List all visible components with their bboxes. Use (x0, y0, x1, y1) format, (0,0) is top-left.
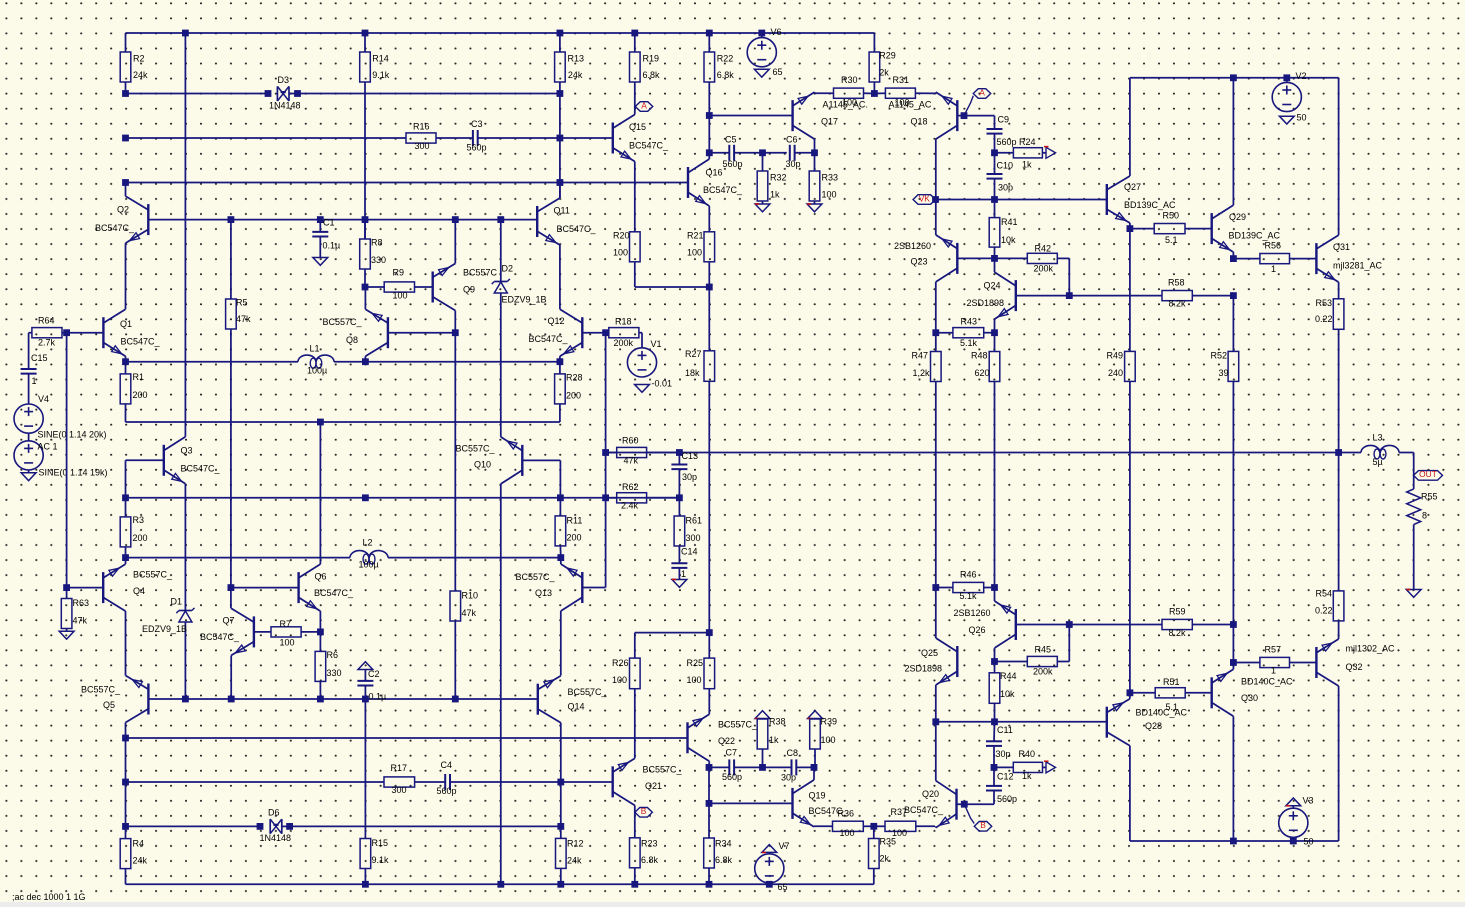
svg-text:BC557C_: BC557C_ (456, 443, 496, 453)
svg-text:C2: C2 (368, 669, 380, 679)
svg-text:R22: R22 (717, 53, 734, 63)
svg-text:R43: R43 (961, 316, 978, 326)
svg-text:24k: 24k (567, 855, 582, 865)
svg-text:R34: R34 (715, 838, 732, 848)
svg-text:R42: R42 (1035, 243, 1052, 253)
svg-text:BC557C_: BC557C_ (133, 569, 173, 579)
svg-text:V1: V1 (651, 339, 662, 349)
svg-text:24k: 24k (133, 855, 148, 865)
svg-text:Q22: Q22 (718, 736, 735, 746)
svg-text:0.22: 0.22 (1315, 314, 1333, 324)
svg-text:330: 330 (371, 255, 386, 265)
svg-text:mjl3281_AC: mjl3281_AC (1333, 260, 1383, 270)
svg-text:R59: R59 (1169, 606, 1186, 616)
svg-text:300: 300 (415, 141, 430, 151)
svg-text:R38: R38 (769, 716, 786, 726)
svg-text:47k: 47k (624, 455, 639, 465)
svg-text:R41: R41 (1001, 217, 1018, 227)
svg-text:D6: D6 (268, 807, 280, 817)
svg-text:Q2: Q2 (117, 204, 129, 214)
svg-text:Q29: Q29 (1229, 212, 1246, 222)
svg-text:R50: R50 (1163, 210, 1180, 220)
svg-text:5.1k: 5.1k (960, 591, 978, 601)
svg-text:C10: C10 (997, 160, 1014, 170)
svg-text:R44: R44 (1000, 671, 1017, 681)
svg-text:BD140C_AC: BD140C_AC (1136, 707, 1188, 717)
svg-text:240: 240 (1108, 368, 1123, 378)
svg-text:L1: L1 (310, 343, 320, 353)
svg-text:65: 65 (773, 67, 783, 77)
svg-text:620: 620 (975, 368, 990, 378)
svg-text:BC547C_: BC547C_ (121, 336, 161, 346)
svg-text:0.1µ: 0.1µ (369, 691, 387, 701)
svg-text:Q19: Q19 (809, 790, 826, 800)
svg-text:R52: R52 (1211, 350, 1228, 360)
svg-text:L3: L3 (1373, 432, 1383, 442)
svg-text:A1145_AC: A1145_AC (889, 99, 932, 109)
svg-text:C12: C12 (997, 771, 1014, 781)
svg-text:R46: R46 (960, 569, 977, 579)
svg-text:6.8k: 6.8k (715, 855, 733, 865)
svg-text:Q18: Q18 (911, 116, 928, 126)
svg-text:D2: D2 (502, 263, 514, 273)
svg-text:Q23: Q23 (911, 256, 928, 266)
svg-text:Q27: Q27 (1124, 182, 1141, 192)
svg-text:100: 100 (821, 735, 836, 745)
svg-text:Q25: Q25 (921, 648, 938, 658)
svg-text:560p: 560p (997, 137, 1017, 147)
svg-text:C6: C6 (786, 134, 798, 144)
svg-text:V3: V3 (1303, 795, 1314, 805)
svg-text:BC547C_: BC547C_ (703, 185, 743, 195)
svg-text:200: 200 (566, 390, 581, 400)
svg-text:100: 100 (822, 189, 837, 199)
svg-text:BC547C_: BC547C_ (529, 334, 569, 344)
svg-text:R58: R58 (1168, 277, 1185, 287)
svg-text:100µ: 100µ (307, 365, 327, 375)
svg-text:R5: R5 (236, 297, 248, 307)
svg-text:R12: R12 (567, 838, 584, 848)
svg-text:C4: C4 (441, 760, 453, 770)
svg-text:C7: C7 (726, 747, 738, 757)
svg-text:560p: 560p (723, 159, 743, 169)
svg-text:2SD1898: 2SD1898 (967, 298, 1005, 308)
svg-text:30p: 30p (682, 472, 697, 482)
svg-text:C8: C8 (787, 748, 799, 758)
svg-text:R4: R4 (133, 838, 145, 848)
svg-text:9.1k: 9.1k (372, 70, 390, 80)
svg-text:C3: C3 (471, 119, 483, 129)
svg-text:200: 200 (133, 533, 148, 543)
svg-text:8: 8 (1422, 510, 1427, 520)
svg-text:BC547C_: BC547C_ (314, 588, 354, 598)
svg-text:EDZV9_1B: EDZV9_1B (142, 624, 187, 634)
svg-text:R23: R23 (641, 838, 658, 848)
svg-text:5.1: 5.1 (1165, 235, 1178, 245)
svg-text:R53: R53 (1316, 298, 1333, 308)
svg-text:Q14: Q14 (568, 701, 585, 711)
svg-text:8.2k: 8.2k (1169, 298, 1187, 308)
svg-text:BD139C_AC: BD139C_AC (1124, 200, 1176, 210)
svg-text:BC557C_: BC557C_ (323, 317, 363, 327)
svg-text:mjl1302_AC: mjl1302_AC (1346, 643, 1396, 653)
svg-text:R17: R17 (391, 763, 408, 773)
svg-text:BD140C_AC: BD140C_AC (1241, 676, 1293, 686)
svg-text:R48: R48 (971, 350, 988, 360)
svg-text:Q20: Q20 (922, 789, 939, 799)
svg-text:Q15: Q15 (629, 122, 646, 132)
svg-text:R14: R14 (372, 53, 389, 63)
svg-text:C5: C5 (725, 134, 737, 144)
svg-text:Q6: Q6 (315, 571, 327, 581)
svg-text:C1: C1 (323, 217, 335, 227)
svg-text:100: 100 (687, 247, 702, 257)
svg-text:47k: 47k (462, 608, 477, 618)
svg-text:C14: C14 (681, 546, 698, 556)
svg-text:BC557C: BC557C (463, 267, 498, 277)
svg-text:R21: R21 (687, 230, 704, 240)
svg-text:;ac dec 1000 1 1G: ;ac dec 1000 1 1G (12, 892, 86, 902)
svg-text:Q4: Q4 (133, 586, 145, 596)
svg-text:1k: 1k (1022, 159, 1032, 169)
svg-text:R32: R32 (770, 172, 787, 182)
svg-text:BC547C_: BC547C_ (904, 805, 944, 815)
svg-text:BD139C_AC: BD139C_AC (1229, 230, 1281, 240)
svg-text:1: 1 (681, 569, 686, 579)
svg-text:100: 100 (840, 828, 855, 838)
svg-text:Q3: Q3 (181, 445, 193, 455)
svg-text:Q16: Q16 (706, 167, 723, 177)
svg-text:BC557C_: BC557C_ (516, 572, 556, 582)
svg-text:1N4148: 1N4148 (260, 833, 292, 843)
svg-text:50: 50 (1304, 836, 1314, 846)
svg-text:R61: R61 (686, 515, 703, 525)
svg-text:2k: 2k (879, 67, 889, 77)
svg-text:B: B (980, 820, 986, 830)
svg-text:Q9: Q9 (463, 284, 475, 294)
svg-text:BC557C_: BC557C_ (718, 719, 758, 729)
svg-text:R7: R7 (280, 619, 292, 629)
svg-text:Q5: Q5 (103, 700, 115, 710)
svg-text:R63: R63 (73, 598, 90, 608)
svg-text:R60: R60 (622, 435, 639, 445)
svg-text:560p: 560p (722, 772, 742, 782)
svg-text:560p: 560p (997, 794, 1017, 804)
svg-text:R10: R10 (462, 590, 479, 600)
svg-text:2SD1898: 2SD1898 (905, 663, 943, 673)
svg-text:Q8: Q8 (346, 335, 358, 345)
svg-text:Q13: Q13 (535, 588, 552, 598)
svg-text:R45: R45 (1035, 644, 1052, 654)
svg-text:R28: R28 (566, 372, 583, 382)
svg-text:Q26: Q26 (969, 625, 986, 635)
svg-text:2k: 2k (880, 853, 890, 863)
svg-text:R27: R27 (685, 349, 702, 359)
svg-text:560p: 560p (437, 786, 457, 796)
svg-text:R8: R8 (371, 237, 383, 247)
svg-text:R31: R31 (893, 75, 910, 85)
svg-text:100: 100 (612, 675, 627, 685)
svg-text:30p: 30p (998, 182, 1013, 192)
svg-text:R57: R57 (1265, 644, 1282, 654)
svg-text:560p: 560p (467, 142, 487, 152)
svg-text:1: 1 (32, 376, 37, 386)
svg-text:R24: R24 (1019, 137, 1036, 147)
svg-text:B: B (641, 806, 647, 816)
svg-text:18k: 18k (685, 368, 700, 378)
svg-text:0.1µ: 0.1µ (323, 240, 341, 250)
svg-text:R47: R47 (912, 350, 929, 360)
svg-text:Q1: Q1 (120, 319, 132, 329)
svg-text:BC547C_: BC547C_ (181, 463, 221, 473)
svg-text:100: 100 (613, 247, 628, 257)
svg-text:0.22: 0.22 (1315, 605, 1333, 615)
svg-text:A: A (979, 87, 985, 97)
svg-text:100: 100 (280, 637, 295, 647)
svg-text:D3: D3 (278, 75, 290, 85)
svg-text:30p: 30p (996, 749, 1011, 759)
svg-text:Q11: Q11 (554, 205, 570, 215)
svg-text:V6: V6 (771, 27, 782, 37)
svg-text:Q10: Q10 (474, 459, 491, 469)
svg-text:R16: R16 (413, 121, 430, 131)
svg-text:BC547C_: BC547C_ (200, 632, 240, 642)
svg-text:300: 300 (392, 785, 407, 795)
svg-text:200k: 200k (1034, 263, 1054, 273)
svg-text:30p: 30p (786, 159, 801, 169)
svg-text:R18: R18 (615, 316, 632, 326)
svg-text:R11: R11 (567, 515, 583, 525)
svg-text:Q24: Q24 (984, 280, 1001, 290)
svg-text:R9: R9 (393, 267, 405, 277)
svg-text:VK: VK (919, 193, 931, 203)
svg-text:200k: 200k (1033, 666, 1053, 676)
svg-text:R56: R56 (1265, 240, 1282, 250)
svg-text:Q30: Q30 (1241, 693, 1258, 703)
svg-text:BC557C_: BC557C_ (643, 764, 683, 774)
svg-text:BC547C_: BC547C_ (95, 223, 135, 233)
svg-text:R19: R19 (643, 53, 660, 63)
svg-text:24k: 24k (568, 70, 583, 80)
svg-text:R26: R26 (612, 658, 629, 668)
svg-text:100: 100 (687, 675, 702, 685)
svg-text:R6: R6 (327, 650, 339, 660)
svg-text:5.1: 5.1 (1166, 702, 1179, 712)
svg-text:R25: R25 (687, 658, 704, 668)
svg-text:R20: R20 (613, 230, 630, 240)
svg-text:Q31: Q31 (1333, 242, 1350, 252)
svg-text:C9: C9 (998, 114, 1010, 124)
svg-text:5.1k: 5.1k (960, 338, 978, 348)
svg-text:2.7k: 2.7k (38, 337, 56, 347)
svg-text:24k: 24k (133, 70, 148, 80)
svg-text:200k: 200k (614, 338, 634, 348)
svg-text:1N4148: 1N4148 (269, 100, 301, 110)
svg-text:47k: 47k (236, 314, 251, 324)
svg-text:R55: R55 (1421, 491, 1438, 501)
svg-text:R36: R36 (838, 808, 855, 818)
svg-text:R37: R37 (891, 807, 908, 817)
svg-text:330: 330 (327, 668, 342, 678)
svg-text:SINE(0 1.14 20k): SINE(0 1.14 20k) (38, 429, 107, 439)
svg-text:R1: R1 (133, 372, 145, 382)
svg-text:39: 39 (1219, 368, 1229, 378)
svg-text:10k: 10k (1000, 689, 1015, 699)
svg-text:OUT: OUT (1419, 469, 1437, 479)
svg-text:L2: L2 (363, 537, 373, 547)
svg-text:Q21: Q21 (645, 781, 662, 791)
svg-text:1,2k: 1,2k (913, 368, 931, 378)
svg-text:V7: V7 (779, 841, 790, 851)
svg-text:BC547C_: BC547C_ (629, 140, 669, 150)
svg-text:AC 1: AC 1 (38, 441, 58, 451)
svg-text:200: 200 (133, 390, 148, 400)
svg-text:R40: R40 (1019, 749, 1036, 759)
svg-text:Q12: Q12 (548, 316, 565, 326)
svg-text:1k: 1k (770, 189, 780, 199)
svg-text:100: 100 (393, 290, 408, 300)
svg-text:-0.01: -0.01 (652, 378, 673, 388)
svg-text:R2: R2 (133, 53, 145, 63)
svg-text:6.8k: 6.8k (717, 70, 735, 80)
svg-text:R29: R29 (879, 50, 896, 60)
svg-text:65: 65 (778, 882, 788, 892)
svg-text:30p: 30p (781, 772, 796, 782)
svg-text:300: 300 (686, 533, 701, 543)
svg-text:C13: C13 (682, 451, 699, 461)
svg-text:C15: C15 (31, 353, 48, 363)
svg-text:R13: R13 (568, 53, 585, 63)
svg-text:1: 1 (1271, 264, 1276, 274)
svg-text:1k: 1k (769, 735, 779, 745)
svg-text:Q32: Q32 (1346, 662, 1363, 672)
svg-text:R51: R51 (1163, 677, 1180, 687)
svg-text:BC557C_: BC557C_ (568, 687, 608, 697)
svg-text:1k: 1k (1022, 771, 1032, 781)
svg-text:BC557C_: BC557C_ (81, 684, 121, 694)
svg-text:6.8k: 6.8k (641, 855, 659, 865)
svg-text:6.8k: 6.8k (643, 70, 661, 80)
svg-text:2SB1260: 2SB1260 (954, 608, 991, 618)
svg-text:Q7: Q7 (223, 615, 235, 625)
svg-text:BC547C_: BC547C_ (557, 224, 597, 234)
svg-text:5µ: 5µ (1373, 457, 1383, 467)
svg-text:Q28: Q28 (1145, 721, 1162, 731)
svg-text:9.1k: 9.1k (372, 855, 390, 865)
svg-text:1: 1 (1271, 665, 1276, 675)
svg-text:8.2k: 8.2k (1169, 628, 1187, 638)
svg-text:D1: D1 (171, 596, 183, 606)
svg-text:2SB1260: 2SB1260 (894, 241, 931, 251)
svg-text:EDZV9_1B: EDZV9_1B (502, 294, 547, 304)
svg-text:50: 50 (1297, 112, 1307, 122)
svg-text:R35: R35 (880, 836, 897, 846)
svg-text:100µ: 100µ (359, 559, 379, 569)
svg-text:R30: R30 (841, 75, 858, 85)
svg-text:C11: C11 (997, 725, 1013, 735)
svg-text:10k: 10k (1001, 235, 1016, 245)
svg-text:V4: V4 (38, 394, 49, 404)
svg-text:A: A (641, 100, 647, 110)
svg-text:R3: R3 (133, 515, 145, 525)
svg-text:V2: V2 (1296, 71, 1307, 81)
svg-text:R54: R54 (1316, 588, 1333, 598)
svg-text:R33: R33 (822, 172, 839, 182)
svg-text:R62: R62 (622, 482, 639, 492)
svg-text:R15: R15 (372, 838, 389, 848)
svg-text:47k: 47k (73, 615, 88, 625)
svg-text:2.4k: 2.4k (621, 500, 639, 510)
svg-text:R39: R39 (821, 716, 838, 726)
svg-text:A1145_AC.: A1145_AC. (823, 99, 868, 109)
svg-text:Q17: Q17 (821, 116, 838, 126)
svg-text:SINE(0 1.14 19k): SINE(0 1.14 19k) (39, 467, 108, 477)
svg-text:R49: R49 (1107, 350, 1124, 360)
svg-text:200: 200 (567, 532, 582, 542)
svg-text:R64: R64 (38, 315, 55, 325)
